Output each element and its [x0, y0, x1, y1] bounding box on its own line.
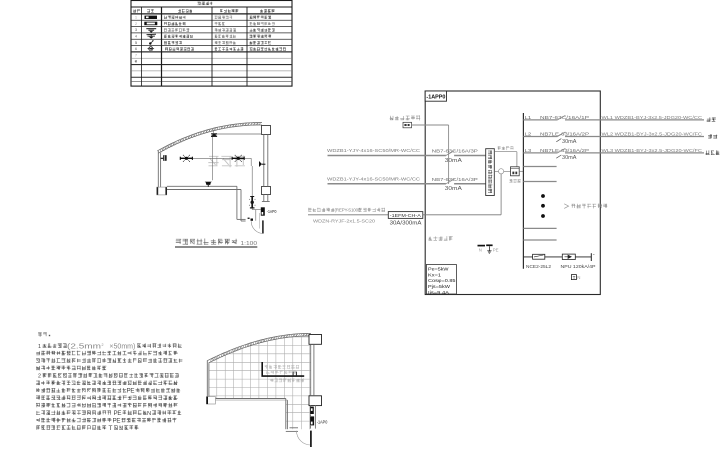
svg-text:2: 2: [38, 374, 41, 380]
main breaker box: [511, 167, 520, 176]
fire feeder line: [308, 214, 388, 216]
svg-text:T: T: [109, 425, 113, 432]
svg-text:N: N: [577, 275, 580, 280]
top-right column lower plan: [309, 335, 322, 345]
svg-text:3: 3: [135, 28, 137, 32]
note line 11: [36, 418, 111, 423]
svg-text:NB7-63C/16A/3P: NB7-63C/16A/3P: [432, 149, 478, 154]
svg-text:6: 6: [135, 47, 137, 51]
panel tag: [425, 91, 446, 101]
door leaf lower plan: [310, 431, 312, 447]
ellipsis dots: [541, 194, 545, 218]
N bar: [478, 245, 486, 247]
panel enclosure: [425, 91, 600, 295]
branch L3 load label: [706, 150, 720, 155]
svg-text:PE: PE: [493, 247, 499, 252]
table title: [198, 2, 213, 6]
row 8 mark: [135, 60, 137, 63]
symbol: ceiling lamp: [146, 29, 156, 33]
mid-right column: [262, 187, 271, 195]
svg-text:-1EFM-CH-A: -1EFM-CH-A: [390, 213, 422, 219]
panel box -1AP0 lower plan: [310, 416, 328, 425]
svg-text:Kx=1: Kx=1: [428, 272, 441, 278]
door arc lower plan: [297, 431, 311, 445]
mid-right column lower plan: [309, 396, 322, 406]
tray label 2: [270, 378, 304, 382]
svg-text:WL3 WDZB1-BYJ-3x2.5-JDG20-WC/F: WL3 WDZB1-BYJ-3x2.5-JDG20-WC/FC: [602, 148, 703, 153]
svg-text:PE: PE: [127, 388, 135, 395]
table header row: [133, 9, 140, 12]
plan title: [176, 239, 237, 246]
main breaker label: [509, 179, 520, 183]
downlight D2: [205, 182, 212, 187]
bottom wall and step: [167, 186, 246, 221]
SPD fuse: [533, 254, 545, 259]
door leaf: [262, 220, 264, 233]
note line 3: [36, 358, 182, 363]
svg-text:WDZB1-YJY-4x16-SC50/MR-WC/CC: WDZB1-YJY-4x16-SC50/MR-WC/CC: [327, 148, 421, 153]
tray label 1: [265, 365, 299, 369]
SPD earth bar: [590, 253, 592, 261]
fire feeder into panel: [423, 174, 501, 215]
ATS label: [498, 146, 514, 150]
svg-text:WL1 WDZB1-BYJ-3x2.5-JDG20-WC/C: WL1 WDZB1-BYJ-3x2.5-JDG20-WC/CC: [602, 115, 703, 120]
svg-text:1: 1: [135, 16, 137, 20]
svg-text:(REPY-S100D: (REPY-S100D: [335, 208, 362, 213]
wall lamp right: [259, 161, 265, 167]
symbol: recessed fluorescent: [145, 16, 158, 19]
svg-text:5: 5: [135, 41, 137, 45]
exterior curved wall: [157, 123, 262, 152]
right wall: [262, 135, 270, 202]
left wall lower: [207, 361, 209, 397]
PE bar and ground: [486, 245, 492, 253]
spare bracket: [564, 204, 568, 209]
svg-text:WDZB1-YJY-4x16-SC50/MR-WC/CC: WDZB1-YJY-4x16-SC50/MR-WC/CC: [327, 176, 421, 181]
note line 12: [36, 425, 106, 430]
SPD symbol: [571, 275, 580, 280]
SPD line: [523, 256, 591, 258]
svg-text:30mA: 30mA: [562, 155, 577, 161]
svg-text:PE: PE: [114, 410, 122, 417]
svg-text:2: 2: [135, 22, 137, 26]
symbol: double ceiling lamp: [147, 34, 157, 38]
lighting wires: [192, 136, 260, 229]
left wall: [158, 151, 160, 187]
downlight D1: [211, 130, 217, 137]
feeder 2 line: [328, 179, 486, 184]
svg-text:-1AP0: -1AP0: [267, 209, 277, 214]
right wall lower plan: [311, 344, 316, 428]
note line 6: [36, 381, 177, 386]
svg-text:30mA: 30mA: [445, 158, 462, 164]
UPS source label: [390, 115, 421, 120]
note line 10: [36, 410, 111, 415]
svg-text:WL2 WDZB1-BYJ-3x2.5-JDG20-WC/F: WL2 WDZB1-BYJ-3x2.5-JDG20-WC/FC: [602, 132, 703, 137]
note line 4: [36, 366, 106, 371]
wire ATS top to breaker: [494, 152, 517, 167]
exterior curved wall lower: [207, 333, 311, 360]
svg-text:30mA: 30mA: [445, 186, 462, 192]
svg-text:L2: L2: [525, 132, 532, 137]
svg-text:NCE2-25L2: NCE2-25L2: [526, 264, 551, 270]
tray ticks: [293, 372, 294, 376]
wire to bus: [519, 170, 523, 172]
svg-text:L1: L1: [525, 115, 532, 120]
feeder 1 line: [328, 151, 486, 156]
note line 8: [36, 395, 178, 400]
svg-text:N: N: [147, 411, 151, 417]
symbol: luminaire circle: [148, 47, 155, 51]
svg-text:4: 4: [135, 34, 137, 38]
symbol: surface fluorescent: [145, 22, 157, 25]
svg-text:NB7-63C/16A/3P: NB7-63C/16A/3P: [432, 177, 478, 182]
symbol: switch: [149, 41, 153, 45]
UPS wire: [412, 125, 449, 184]
branch L1 load label: [707, 117, 716, 121]
table cell texts: [164, 16, 185, 20]
svg-text:8: 8: [135, 60, 137, 64]
svg-text:L3: L3: [525, 148, 532, 153]
svg-text:1:100: 1:100: [241, 241, 258, 247]
note line 9: [36, 403, 178, 408]
svg-text:Pjs=5kW: Pjs=5kW: [428, 284, 451, 290]
vertical luminaire X3: [249, 196, 256, 208]
spare note: [571, 204, 607, 209]
svg-text:30mA: 30mA: [562, 139, 577, 145]
svg-text:-1APP0: -1APP0: [426, 95, 445, 101]
table row numbers: [135, 16, 137, 64]
arrow on ATS out: [499, 169, 504, 174]
svg-text:1: 1: [38, 344, 41, 350]
fire monitor module: [388, 212, 423, 219]
svg-text:NPU 120kA/4P: NPU 120kA/4P: [561, 264, 596, 270]
earth note: [428, 236, 452, 241]
spare stubs: [523, 167, 556, 241]
door switch: [248, 218, 253, 221]
fire feeder label: [308, 208, 334, 212]
svg-text:-1AP0: -1AP0: [317, 420, 328, 425]
notes heading: [38, 333, 47, 337]
bottom wall and step lower: [216, 399, 298, 432]
wire ATS out: [494, 170, 510, 172]
luminaire X1: [180, 155, 192, 162]
svg-text:30A/300mA: 30A/300mA: [390, 220, 422, 226]
svg-text:Cosφ=0.85: Cosφ=0.85: [428, 278, 456, 284]
ATS box: [486, 149, 495, 196]
materials table frame: [131, 1, 292, 87]
luminaire X2: [232, 155, 244, 162]
svg-text:Ijs=9.4A: Ijs=9.4A: [428, 290, 450, 296]
svg-text:N: N: [479, 248, 482, 253]
svg-text:Pe=5kW: Pe=5kW: [428, 267, 449, 273]
svg-text:WDZN-RYJF-2x1.5-SC20: WDZN-RYJF-2x1.5-SC20: [313, 218, 376, 223]
svg-text:PE: PE: [113, 417, 121, 424]
svg-text:2: 2: [102, 343, 104, 347]
load info box: [426, 265, 456, 296]
bottom-left column: [157, 187, 167, 195]
SPD arrester: [562, 254, 575, 259]
UPS source box: [403, 122, 412, 128]
note line 2: [36, 351, 177, 356]
top-right column: [262, 126, 271, 135]
wall lamp left: [161, 155, 167, 161]
svg-text:(2.5mm: (2.5mm: [67, 342, 101, 351]
door arc: [251, 221, 263, 233]
svg-text:T: T: [573, 275, 576, 280]
corner column lower plan: [206, 397, 215, 405]
interior top wall line: [213, 133, 262, 135]
svg-text:7: 7: [135, 53, 137, 57]
main bus: [522, 113, 524, 269]
room watermark: [208, 156, 245, 168]
plan panel box -1AP0: [261, 207, 277, 215]
branch L2 load label: [708, 134, 717, 138]
wall device box: [310, 407, 314, 414]
note line 7: [36, 388, 126, 393]
cable tray: [262, 362, 304, 376]
svg-text:×50mm): ×50mm): [109, 342, 135, 351]
